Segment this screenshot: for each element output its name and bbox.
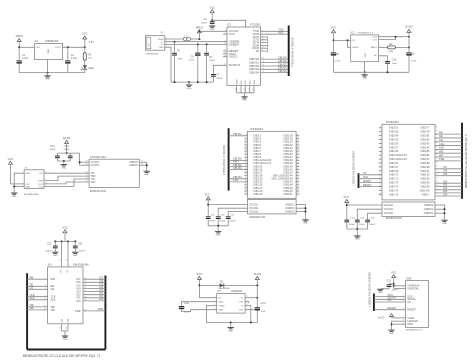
FTDI right pin numbers	[262, 30, 264, 73]
wire CBUS0 to BANK1	[229, 157, 248, 161]
power flag VLCD (IC7)	[254, 272, 261, 286]
connector X1 USB MINI-B	[145, 32, 167, 55]
wire VCC to IC3 IN	[334, 39, 351, 41]
ground symbol NAND	[62, 336, 68, 341]
wire NAND WP	[27, 306, 47, 310]
IC5-BANK1 right pin numbers	[297, 134, 299, 194]
svg-text:ALE: ALE	[30, 296, 35, 300]
svg-text:63: 63	[297, 162, 299, 164]
wire VCC to X2	[11, 183, 25, 185]
svg-text:60: 60	[297, 153, 299, 155]
IC5-BANK2 left stubs	[379, 128, 382, 195]
svg-text:TDO: TDO	[91, 182, 96, 184]
svg-text:67: 67	[297, 174, 299, 176]
svg-text:GNDIO1: GNDIO1	[285, 210, 295, 213]
svg-text:CBUS4: CBUS4	[249, 70, 259, 74]
svg-text:IC4: IC4	[48, 263, 52, 266]
svg-text:VLCD: VLCD	[254, 272, 261, 276]
svg-text:66: 66	[297, 171, 299, 173]
svg-text:GND: GND	[303, 223, 308, 225]
svg-text:GNDIO2: GNDIO2	[424, 208, 434, 211]
svg-text:65: 65	[297, 168, 299, 170]
power flag VBUS (top-left)	[16, 34, 23, 47]
svg-text:VCC: VCC	[331, 25, 337, 29]
op-amp IC7 LM2662M	[214, 290, 247, 313]
svg-text:1: 1	[380, 126, 381, 128]
svg-text:IC5-BANK2: IC5-BANK2	[386, 121, 400, 124]
bus FTBUS name text	[293, 37, 295, 66]
svg-text:7: 7	[380, 150, 381, 152]
wire VCCIO1 feed 2	[218, 208, 247, 216]
svg-text:55: 55	[297, 137, 299, 139]
bus FTBUS vertical	[288, 26, 290, 77]
svg-text:IOB1-51: IOB1-51	[284, 193, 294, 196]
bus LCDBUS (bank2 side)	[358, 173, 360, 188]
svg-text:GNDIO1: GNDIO1	[285, 204, 295, 207]
svg-text:69: 69	[436, 162, 438, 164]
bus MEMBUS left vertical	[26, 273, 28, 349]
svg-text:GND: GND	[73, 255, 78, 257]
wire LEDGND	[391, 321, 406, 330]
svg-text:64: 64	[436, 142, 438, 144]
wire CBUS1 to BANK1	[229, 132, 248, 136]
svg-text:59: 59	[297, 150, 299, 152]
wire TXD to BANK1	[229, 178, 248, 182]
svg-text:12: 12	[65, 260, 67, 262]
svg-text:GND: GND	[61, 167, 66, 169]
svg-text:VCC: VCC	[62, 226, 68, 230]
svg-text:CE: CE	[51, 287, 55, 291]
svg-text:20: 20	[224, 33, 226, 35]
svg-text:D1.8V: D1.8V	[405, 25, 413, 29]
svg-text:IOB2-82: IOB2-82	[420, 138, 430, 141]
svg-text:CS: CS	[407, 300, 411, 304]
FTDI bottom ground stubs	[235, 85, 254, 96]
svg-text:GND: GND	[53, 255, 58, 257]
svg-text:PRE: PRE	[75, 309, 81, 313]
svg-text:IO7: IO7	[443, 165, 448, 169]
svg-text:71: 71	[297, 186, 299, 188]
svg-text:GND: GND	[216, 234, 221, 236]
wire PRE to MEMBUS	[435, 157, 462, 161]
bus FTBUS label (bank1)	[224, 145, 226, 174]
FTDI VCC pin stub	[223, 33, 227, 35]
wire IO2 to MEMBUS	[435, 186, 462, 190]
svg-text:100nF: 100nF	[79, 250, 86, 252]
svg-text:IC7: IC7	[218, 290, 222, 293]
capacitor C1	[17, 54, 29, 72]
svg-text:R/B: R/B	[51, 277, 56, 281]
svg-text:IOB2-76: IOB2-76	[389, 193, 399, 196]
svg-text:EPM240GT100: EPM240GT100	[90, 191, 107, 193]
ground symbol C23	[377, 289, 383, 294]
svg-text:TDI: TDI	[39, 173, 43, 175]
svg-text:+C12: +C12	[260, 303, 266, 305]
svg-text:IC3: IC3	[351, 32, 355, 35]
wire IO3 to MEMBUS	[435, 183, 462, 187]
svg-text:73: 73	[436, 177, 438, 179]
wire VCCIO2 feed 3	[368, 213, 382, 219]
svg-text:IOB2-69: IOB2-69	[389, 170, 399, 173]
svg-text:D1.8V: D1.8V	[63, 136, 71, 140]
svg-text:100nF: 100nF	[46, 250, 53, 252]
svg-text:IOB2-95: IOB2-95	[420, 178, 430, 181]
svg-text:VDIGITAL: VDIGITAL	[407, 287, 419, 291]
svg-text:32: 32	[245, 147, 247, 149]
svg-text:68: 68	[436, 158, 438, 160]
svg-text:CBUS0: CBUS0	[278, 56, 287, 60]
svg-text:OUT: OUT	[373, 39, 378, 41]
svg-text:LCDBUS:SCK,SDATA,CS,RESET: LCDBUS:SCK,SDATA,CS,RESET	[368, 271, 371, 306]
svg-text:RE: RE	[439, 134, 443, 138]
svg-text:IC5-BANK1: IC5-BANK1	[250, 128, 264, 131]
svg-text:12: 12	[379, 169, 381, 171]
ground rail IC3 block	[334, 71, 410, 73]
svg-text:36: 36	[65, 327, 67, 329]
svg-text:GNDIO2: GNDIO2	[424, 204, 434, 207]
svg-text:C21: C21	[47, 244, 52, 246]
power flag D1.8V (caps)	[63, 136, 71, 154]
svg-text:100nF: 100nF	[201, 23, 208, 25]
wire IC3 OUT rails	[379, 36, 410, 40]
svg-text:72: 72	[436, 173, 438, 175]
wire IO6 to MEMBUS	[435, 169, 462, 173]
svg-text:VCCIO2: VCCIO2	[384, 212, 394, 215]
capacitor C17	[226, 214, 236, 225]
capacitor C22	[73, 241, 86, 252]
FTDI left pin names	[229, 29, 241, 67]
wire TCK	[44, 179, 89, 187]
svg-text:WP: WP	[439, 153, 443, 157]
svg-text:GND: GND	[355, 239, 360, 241]
wire VBUS from X1 through L1	[165, 38, 184, 40]
svg-text:TCK: TCK	[91, 179, 96, 181]
ground symbol X2	[11, 193, 17, 198]
wire IO1 to MEMBUS	[435, 189, 462, 193]
op-amp regulator IC3	[348, 32, 381, 62]
svg-text:VBUS: VBUS	[158, 39, 164, 41]
op-amp NAND IC4 body	[48, 263, 89, 323]
svg-text:CS: CS	[388, 298, 392, 302]
resistor R2	[379, 44, 410, 53]
svg-text:IO0: IO0	[443, 192, 448, 196]
svg-text:LED1: LED1	[88, 68, 94, 70]
svg-text:VCCIO2: VCCIO2	[384, 208, 394, 211]
wire CS to BANK2	[359, 171, 383, 175]
ground symbol IC3	[361, 75, 367, 80]
svg-text:IOB2-71: IOB2-71	[389, 174, 399, 177]
wire NAND CE	[27, 286, 47, 290]
svg-text:IOB2-88: IOB2-88	[420, 162, 430, 165]
svg-text:PRE: PRE	[98, 307, 104, 311]
IC5-BANK2 right pin numbers	[436, 126, 438, 195]
wire CBUS1 net	[261, 59, 289, 63]
svg-text:2: 2	[403, 287, 404, 289]
svg-text:VCCIO1: VCCIO1	[249, 204, 259, 207]
svg-text:VCC: VCC	[205, 193, 210, 196]
svg-text:IOB1-30: IOB1-30	[253, 193, 263, 196]
IC5-BANK1 left pin numbers	[245, 134, 247, 194]
svg-text:GND: GND	[362, 78, 367, 80]
capacitor C2	[65, 47, 77, 72]
bus LCDBUS label (LCD)	[368, 271, 371, 306]
svg-text:61: 61	[297, 156, 299, 158]
IC5-BANK1 left pin names	[253, 135, 271, 196]
ferrite bead L1	[183, 35, 190, 40]
capacitor C7	[211, 74, 223, 82]
capacitor C20	[365, 217, 376, 229]
ground symbol C3	[209, 26, 215, 31]
svg-text:IOB2-66: IOB2-66	[389, 162, 399, 165]
svg-text:WP: WP	[30, 306, 34, 310]
op-amp IC5-BANK1 IO power box	[248, 199, 297, 219]
wire cap bottom rail to ground	[57, 160, 70, 164]
wire USB D- to USBDM	[165, 41, 227, 43]
svg-text:67: 67	[436, 154, 438, 156]
svg-text:3: 3	[348, 46, 349, 48]
wire X2 GND net	[13, 173, 24, 192]
wire GNDIO1 net	[296, 205, 306, 220]
svg-text:C23: C23	[387, 281, 392, 283]
svg-text:16: 16	[224, 40, 226, 42]
svg-text:VCC: VCC	[210, 6, 215, 9]
svg-text:CBUS1: CBUS1	[278, 59, 287, 63]
svg-text:FTBUS:CBUS0..4,TXD,RXD: FTBUS:CBUS0..4,TXD,RXD	[224, 145, 226, 174]
svg-text:1: 1	[348, 39, 349, 41]
svg-text:RB: RB	[30, 276, 34, 280]
NAND right pin numbers	[84, 278, 86, 312]
op-amp IC5-BANK2 IO power box	[382, 202, 435, 220]
wire NAND ALE	[27, 296, 47, 300]
svg-text:CE: CE	[30, 286, 34, 290]
wire TDO	[44, 182, 89, 184]
svg-text:73: 73	[297, 193, 299, 195]
svg-text:IOB2-58: IOB2-58	[389, 150, 399, 153]
svg-text:NOKIA6100-LCD: NOKIA6100-LCD	[406, 328, 423, 331]
svg-text:10: 10	[21, 186, 23, 188]
wire VDISPLAY	[394, 285, 406, 287]
svg-text:IOB2-52: IOB2-52	[389, 127, 399, 130]
wire NAND IO5	[83, 282, 105, 286]
wire RXD net	[261, 31, 289, 35]
svg-text:IOB2-72: IOB2-72	[389, 178, 399, 181]
svg-text:6: 6	[380, 146, 381, 148]
ground symbol bank2 caps	[354, 236, 360, 241]
svg-text:IOB2-84: IOB2-84	[420, 146, 430, 149]
svg-text:C11+: C11+	[184, 303, 190, 305]
wire RESET to BANK2	[359, 183, 383, 187]
svg-text:CAP+: CAP+	[218, 301, 224, 304]
wire CLE to MEMBUS	[435, 142, 462, 146]
wire IC7 IN	[199, 297, 216, 299]
svg-text:AGND: AGND	[235, 79, 238, 85]
capacitor C23	[380, 281, 398, 292]
svg-text:VBUS: VBUS	[196, 26, 204, 30]
svg-text:GND: GND	[25, 173, 30, 175]
svg-text:7: 7	[240, 88, 242, 89]
svg-text:VLCD: VLCD	[378, 316, 385, 319]
svg-text:GND: GND	[63, 339, 68, 341]
svg-text:IOB2-78: IOB2-78	[420, 131, 430, 134]
svg-text:FAULT: FAULT	[371, 46, 378, 49]
svg-text:72: 72	[297, 190, 299, 192]
svg-text:70: 70	[297, 183, 299, 185]
svg-text:GND: GND	[25, 186, 30, 188]
svg-text:44: 44	[245, 183, 247, 185]
svg-text:10nF: 10nF	[392, 63, 398, 65]
svg-text:WP: WP	[51, 308, 55, 312]
svg-text:39: 39	[245, 168, 247, 170]
bus MEMBUS bottom	[27, 349, 105, 351]
power flag VCC (JTAG)	[8, 157, 14, 184]
svg-text:IOB2-53: IOB2-53	[389, 131, 399, 134]
wire GNDIO2 net	[435, 205, 446, 220]
svg-text:IOB2-89: IOB2-89	[420, 166, 430, 169]
svg-text:37: 37	[59, 260, 61, 262]
wire V+ to VLCD node	[245, 297, 258, 299]
capacitor C11	[179, 302, 217, 314]
svg-text:GND: GND	[228, 330, 233, 332]
IC5-BANK1 left stubs	[244, 139, 247, 194]
svg-text:PRE: PRE	[439, 157, 445, 161]
wire CBUS4 to BANK1	[229, 175, 248, 179]
svg-text:37: 37	[245, 162, 247, 164]
svg-text:54: 54	[297, 134, 299, 136]
bus LCDBUS (LCD side)	[373, 294, 375, 312]
svg-text:IOB2-57: IOB2-57	[389, 146, 399, 149]
svg-text:IOB2-98: IOB2-98	[420, 186, 430, 189]
svg-text:C10: C10	[392, 60, 397, 62]
svg-text:GND: GND	[12, 196, 17, 198]
wire L1 to VBUS arrow node	[190, 38, 200, 40]
svg-text:GNDINT: GNDINT	[129, 165, 138, 167]
svg-text:DISP: DISP	[406, 278, 412, 281]
svg-text:100nF: 100nF	[209, 60, 216, 62]
svg-text:VCC: VCC	[8, 157, 14, 161]
svg-text:100nF: 100nF	[49, 149, 56, 151]
svg-text:2.2uF: 2.2uF	[22, 58, 28, 60]
svg-text:VCCINT: VCCINT	[91, 162, 100, 164]
svg-text:26: 26	[253, 88, 255, 90]
svg-text:45: 45	[245, 186, 247, 188]
svg-text:IOB2-83: IOB2-83	[420, 142, 430, 145]
svg-text:RB: RB	[439, 130, 443, 134]
svg-text:OUT: OUT	[373, 37, 378, 39]
svg-text:31: 31	[245, 144, 247, 146]
wire NAND VCC pins	[59, 241, 68, 267]
capacitor C8	[331, 40, 341, 72]
wire IO5 to MEMBUS	[435, 172, 462, 176]
ground symbol USB block	[186, 85, 192, 90]
wire ALE to MEMBUS	[435, 146, 462, 150]
svg-text:CBUS3: CBUS3	[233, 166, 242, 170]
svg-text:GND: GND	[47, 49, 49, 54]
svg-text:100nF: 100nF	[392, 290, 399, 292]
svg-text:LP5900SD5-1.8: LP5900SD5-1.8	[358, 33, 374, 35]
svg-text:D-: D-	[161, 42, 164, 44]
capacitor C6	[189, 44, 201, 82]
svg-text:3.3V: 3.3V	[89, 41, 94, 44]
svg-text:27: 27	[224, 53, 226, 55]
svg-text:TXD: TXD	[233, 178, 238, 182]
svg-text:40: 40	[245, 171, 247, 173]
svg-text:34: 34	[245, 153, 247, 155]
wire NAND WE	[27, 303, 47, 307]
svg-text:64: 64	[297, 165, 299, 167]
svg-text:VCC: VCC	[229, 32, 236, 36]
svg-text:TDI: TDI	[91, 173, 95, 175]
svg-text:ALE: ALE	[439, 146, 444, 150]
svg-text:30: 30	[245, 140, 247, 142]
svg-text:33: 33	[245, 150, 247, 152]
wire VDIGITAL	[394, 288, 406, 290]
svg-text:15: 15	[224, 43, 226, 45]
wire IO7 to MEMBUS	[435, 165, 462, 169]
svg-text:CAP-: CAP-	[218, 309, 223, 312]
svg-text:CS: CS	[363, 171, 367, 175]
wire NAND IO7	[83, 276, 105, 280]
svg-text:IOB2-81: IOB2-81	[420, 135, 430, 138]
svg-text:GND: GND	[364, 53, 366, 58]
svg-text:CLE: CLE	[439, 142, 444, 146]
svg-text:1: 1	[214, 296, 215, 298]
wire CBUS0 net	[261, 56, 289, 60]
power flag VCC (bank1)	[205, 193, 211, 216]
svg-text:GND: GND	[378, 292, 383, 294]
op-amp IC5-BANK2 body	[382, 121, 435, 200]
ground symbol IC7	[228, 328, 234, 333]
svg-text:100nF: 100nF	[219, 221, 226, 223]
svg-text:GND: GND	[187, 88, 192, 90]
wire VCCIO to VBUS node	[199, 30, 227, 32]
svg-text:VIN: VIN	[36, 47, 40, 49]
wire SCK to LCD	[374, 293, 406, 297]
wire LV to rail	[245, 306, 251, 323]
net note MEMBUS	[23, 354, 100, 358]
svg-text:SDATA: SDATA	[363, 179, 372, 183]
bus MEMBUS label (bank2)	[465, 134, 468, 188]
wire RE to MEMBUS	[435, 134, 462, 138]
svg-text:21: 21	[248, 88, 250, 90]
svg-text:IOB2-1: IOB2-1	[422, 193, 430, 196]
svg-text:NC: NC	[374, 55, 378, 57]
svg-text:10uF: 10uF	[184, 312, 190, 314]
wire OUT to VLCD node	[245, 309, 257, 311]
svg-text:TMS: TMS	[91, 176, 96, 178]
svg-text:OUT: OUT	[239, 310, 244, 312]
resistor R1	[83, 47, 92, 65]
wire NAND IO1	[83, 294, 105, 298]
svg-text:IC1: IC1	[35, 40, 39, 43]
power flag VCC 3.3V	[82, 32, 94, 48]
svg-text:FTBUS:CBUS0..4,TXD,RXD: FTBUS:CBUS0..4,TXD,RXD	[293, 37, 295, 66]
svg-text:K9K4G08U0M: K9K4G08U0M	[73, 263, 88, 266]
svg-text:IOB2-75: IOB2-75	[389, 189, 399, 192]
svg-text:IOB2-62/GCLK2: IOB2-62/GCLK2	[389, 154, 407, 157]
svg-text:EPM240GT100: EPM240GT100	[386, 218, 403, 220]
svg-text:IO0: IO0	[99, 297, 104, 301]
svg-text:TCK: TCK	[38, 186, 43, 188]
ground symbol C22	[72, 252, 78, 257]
svg-text:17: 17	[224, 64, 226, 66]
svg-text:100nF: 100nF	[349, 224, 356, 226]
power flag VCC (IC7)	[197, 272, 203, 298]
svg-text:GNDIO2: GNDIO2	[424, 212, 434, 215]
svg-text:GND: GND	[159, 47, 164, 49]
svg-text:69: 69	[297, 180, 299, 182]
power flag VCC above C3	[210, 6, 215, 21]
svg-text:RESET: RESET	[363, 183, 372, 187]
